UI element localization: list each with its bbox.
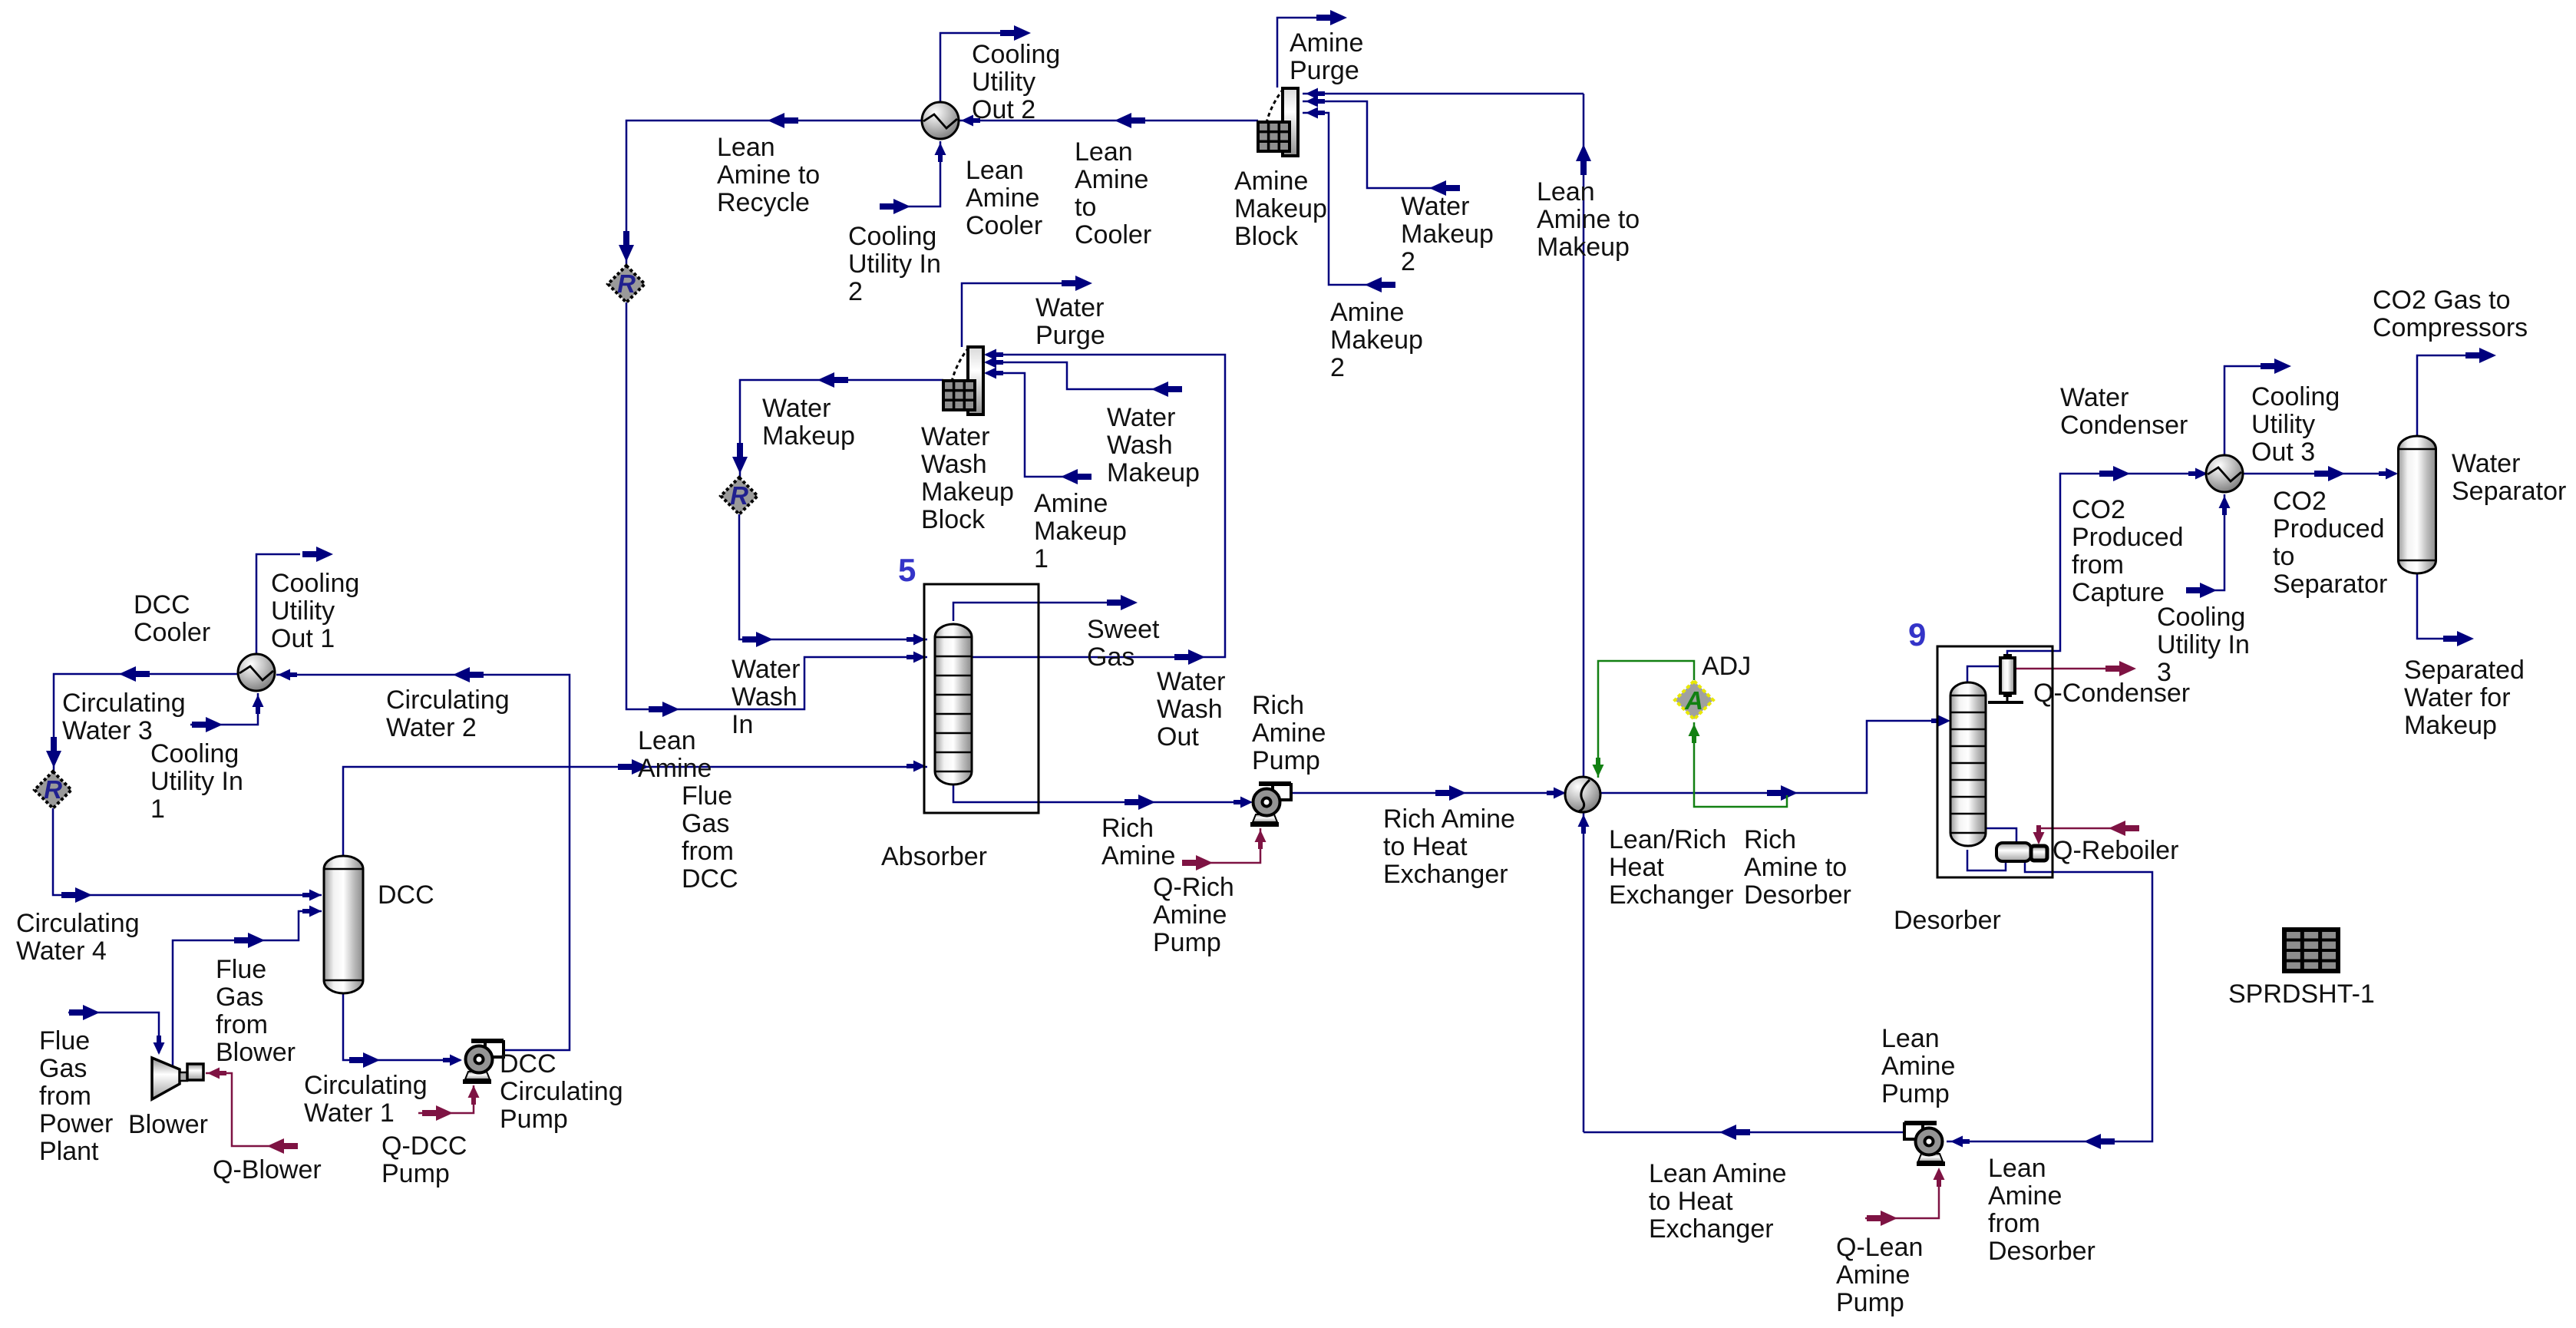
svg-text:CO2: CO2 <box>2273 487 2327 516</box>
svg-text:Utility In: Utility In <box>150 767 243 796</box>
svg-text:Desorber: Desorber <box>1744 880 1851 910</box>
svg-text:Circulating: Circulating <box>62 689 186 718</box>
svg-text:Circulating: Circulating <box>304 1071 428 1100</box>
svg-text:Rich: Rich <box>1101 814 1154 843</box>
svg-text:Produced: Produced <box>2072 523 2184 552</box>
svg-text:Sweet: Sweet <box>1087 615 1160 644</box>
svg-text:9: 9 <box>1908 616 1926 652</box>
svg-text:Lean: Lean <box>717 133 775 162</box>
svg-text:Blower: Blower <box>216 1038 296 1067</box>
svg-text:Pump: Pump <box>381 1159 450 1188</box>
svg-text:Lean Amine: Lean Amine <box>1649 1159 1787 1188</box>
svg-text:from: from <box>216 1010 268 1039</box>
svg-text:Amine to: Amine to <box>1744 853 1847 882</box>
svg-text:Rich: Rich <box>1744 825 1796 854</box>
svg-text:Q-Lean: Q-Lean <box>1836 1233 1923 1262</box>
svg-text:Amine: Amine <box>1075 165 1148 194</box>
svg-text:Flue: Flue <box>216 955 266 984</box>
svg-text:Water: Water <box>1401 192 1469 221</box>
svg-text:Water: Water <box>1035 293 1104 322</box>
svg-text:Circulating: Circulating <box>16 909 140 938</box>
svg-text:2: 2 <box>1330 353 1345 382</box>
svg-text:R: R <box>617 269 636 298</box>
svg-text:Power: Power <box>39 1109 113 1138</box>
svg-text:Separator: Separator <box>2452 477 2566 506</box>
svg-text:Rich Amine: Rich Amine <box>1383 804 1515 834</box>
svg-text:Desorber: Desorber <box>1894 906 2001 935</box>
svg-text:Cooling: Cooling <box>150 739 239 768</box>
svg-text:Amine: Amine <box>1836 1260 1910 1290</box>
svg-text:Lean: Lean <box>1537 177 1595 206</box>
svg-text:Circulating: Circulating <box>500 1077 623 1106</box>
svg-text:Lean: Lean <box>1075 137 1133 167</box>
svg-text:Out 1: Out 1 <box>271 624 335 653</box>
svg-text:Water: Water <box>732 655 800 684</box>
svg-text:Compressors: Compressors <box>2373 313 2528 342</box>
svg-text:Block: Block <box>1234 222 1299 251</box>
svg-text:Water 4: Water 4 <box>16 937 107 966</box>
svg-text:Exchanger: Exchanger <box>1383 860 1508 889</box>
svg-text:to Heat: to Heat <box>1649 1187 1733 1216</box>
svg-text:CO2 Gas to: CO2 Gas to <box>2373 286 2511 315</box>
svg-text:Makeup: Makeup <box>1034 517 1127 546</box>
svg-text:Lean: Lean <box>966 156 1024 185</box>
svg-text:Cooling: Cooling <box>2251 382 2340 411</box>
svg-text:Cooler: Cooler <box>966 211 1042 240</box>
svg-text:Lean: Lean <box>1881 1024 1940 1053</box>
svg-text:Utility In: Utility In <box>2157 630 2250 659</box>
svg-text:1: 1 <box>150 794 165 824</box>
svg-text:Utility: Utility <box>2251 410 2315 439</box>
svg-text:Amine to: Amine to <box>717 160 820 190</box>
svg-text:R: R <box>44 775 62 804</box>
svg-text:Makeup: Makeup <box>1234 194 1327 223</box>
svg-text:Pump: Pump <box>1252 746 1320 775</box>
svg-text:ADJ: ADJ <box>1702 652 1751 681</box>
svg-text:Desorber: Desorber <box>1988 1237 2095 1266</box>
svg-text:from: from <box>39 1082 91 1111</box>
svg-text:Heat: Heat <box>1609 853 1664 882</box>
svg-text:Amine: Amine <box>1881 1052 1955 1081</box>
svg-text:Purge: Purge <box>1290 56 1359 85</box>
svg-text:Pump: Pump <box>500 1105 568 1134</box>
svg-text:to: to <box>1075 193 1096 222</box>
svg-text:DCC: DCC <box>682 864 738 894</box>
svg-text:Separated: Separated <box>2404 656 2525 685</box>
svg-text:Recycle: Recycle <box>717 188 810 217</box>
svg-text:from: from <box>682 837 734 866</box>
svg-text:Water for: Water for <box>2404 683 2511 712</box>
svg-text:3: 3 <box>2157 658 2171 687</box>
svg-text:Purge: Purge <box>1035 321 1105 350</box>
svg-text:Water: Water <box>921 422 989 451</box>
svg-text:Amine: Amine <box>1101 841 1175 870</box>
svg-text:Amine: Amine <box>966 183 1039 213</box>
svg-text:Exchanger: Exchanger <box>1609 880 1734 910</box>
svg-text:Rich: Rich <box>1252 691 1304 720</box>
svg-text:Pump: Pump <box>1836 1288 1904 1317</box>
svg-text:Amine to: Amine to <box>1537 205 1640 234</box>
svg-text:Out 2: Out 2 <box>972 95 1035 124</box>
svg-text:from: from <box>1988 1209 2040 1238</box>
svg-text:Lean/Rich: Lean/Rich <box>1609 825 1726 854</box>
svg-text:Utility: Utility <box>972 68 1035 97</box>
svg-text:Blower: Blower <box>128 1110 208 1139</box>
svg-text:Wash: Wash <box>732 682 798 712</box>
svg-text:to: to <box>2273 542 2294 571</box>
svg-text:Amine: Amine <box>1252 719 1326 748</box>
svg-text:Gas: Gas <box>1087 643 1134 672</box>
svg-text:Cooler: Cooler <box>134 618 210 647</box>
svg-text:CO2: CO2 <box>2072 495 2125 524</box>
svg-text:Water 2: Water 2 <box>386 713 477 742</box>
svg-text:Cooler: Cooler <box>1075 220 1151 249</box>
svg-text:Out: Out <box>1157 722 1199 752</box>
svg-text:5: 5 <box>898 552 916 588</box>
svg-text:Block: Block <box>921 505 986 534</box>
svg-text:Q-Blower: Q-Blower <box>213 1155 322 1184</box>
svg-text:Gas: Gas <box>39 1054 87 1083</box>
svg-text:Flue: Flue <box>682 781 732 811</box>
svg-text:Flue: Flue <box>39 1026 90 1055</box>
svg-text:Gas: Gas <box>216 983 263 1012</box>
svg-text:Condenser: Condenser <box>2060 411 2188 440</box>
svg-text:Makeup: Makeup <box>1107 458 1200 487</box>
svg-text:Capture: Capture <box>2072 578 2165 607</box>
svg-text:Makeup: Makeup <box>762 421 855 451</box>
svg-text:Amine: Amine <box>1290 28 1363 58</box>
svg-text:Water: Water <box>1107 403 1175 432</box>
svg-text:Amine: Amine <box>1153 900 1227 930</box>
svg-text:Pump: Pump <box>1881 1079 1950 1108</box>
svg-text:Cooling: Cooling <box>972 40 1060 69</box>
svg-text:2: 2 <box>1401 247 1415 276</box>
svg-text:Cooling: Cooling <box>2157 603 2245 632</box>
svg-text:Gas: Gas <box>682 809 729 838</box>
svg-text:Makeup: Makeup <box>1401 220 1494 249</box>
svg-text:Water: Water <box>2452 449 2520 478</box>
svg-text:R: R <box>730 481 748 510</box>
svg-text:Produced: Produced <box>2273 514 2385 543</box>
svg-text:Cooling: Cooling <box>271 569 359 598</box>
svg-text:Water: Water <box>2060 383 2129 412</box>
svg-text:A: A <box>1684 686 1703 715</box>
svg-text:DCC: DCC <box>378 880 434 910</box>
svg-text:Wash: Wash <box>1107 431 1173 460</box>
svg-text:Exchanger: Exchanger <box>1649 1214 1774 1244</box>
svg-text:Water 3: Water 3 <box>62 716 153 745</box>
svg-text:Amine: Amine <box>1330 298 1404 327</box>
svg-text:Amine: Amine <box>1234 167 1308 196</box>
svg-text:Amine: Amine <box>1988 1181 2062 1211</box>
svg-text:Q-DCC: Q-DCC <box>381 1131 467 1161</box>
svg-text:Water: Water <box>1157 667 1225 696</box>
svg-text:Q-Reboiler: Q-Reboiler <box>2053 836 2178 865</box>
svg-text:1: 1 <box>1034 544 1049 573</box>
svg-text:Circulating: Circulating <box>386 685 510 715</box>
svg-text:Utility: Utility <box>271 596 335 626</box>
svg-text:Plant: Plant <box>39 1137 99 1166</box>
svg-text:Wash: Wash <box>1157 695 1223 724</box>
svg-text:Amine: Amine <box>1034 489 1108 518</box>
svg-text:DCC: DCC <box>134 590 190 619</box>
svg-text:Water: Water <box>762 394 831 423</box>
svg-text:Amine: Amine <box>638 754 712 783</box>
svg-text:Q-Rich: Q-Rich <box>1153 873 1234 902</box>
svg-text:Water 1: Water 1 <box>304 1098 395 1128</box>
svg-text:Lean: Lean <box>1988 1154 2046 1183</box>
svg-text:Makeup: Makeup <box>2404 711 2497 740</box>
svg-text:Makeup: Makeup <box>921 477 1014 507</box>
svg-text:2: 2 <box>848 277 863 306</box>
svg-text:Wash: Wash <box>921 450 987 479</box>
svg-text:Out 3: Out 3 <box>2251 438 2315 467</box>
svg-text:from: from <box>2072 550 2124 580</box>
svg-text:In: In <box>732 710 753 739</box>
svg-text:SPRDSHT-1: SPRDSHT-1 <box>2228 979 2375 1009</box>
svg-text:Makeup: Makeup <box>1330 325 1423 355</box>
svg-text:Pump: Pump <box>1153 928 1221 957</box>
svg-text:Lean: Lean <box>638 726 696 755</box>
svg-text:Utility In: Utility In <box>848 249 941 279</box>
svg-text:Absorber: Absorber <box>881 842 987 871</box>
svg-text:Separator: Separator <box>2273 570 2387 599</box>
svg-text:to Heat: to Heat <box>1383 832 1468 861</box>
svg-text:Makeup: Makeup <box>1537 233 1630 262</box>
svg-text:DCC: DCC <box>500 1049 556 1079</box>
svg-text:Cooling: Cooling <box>848 222 936 251</box>
